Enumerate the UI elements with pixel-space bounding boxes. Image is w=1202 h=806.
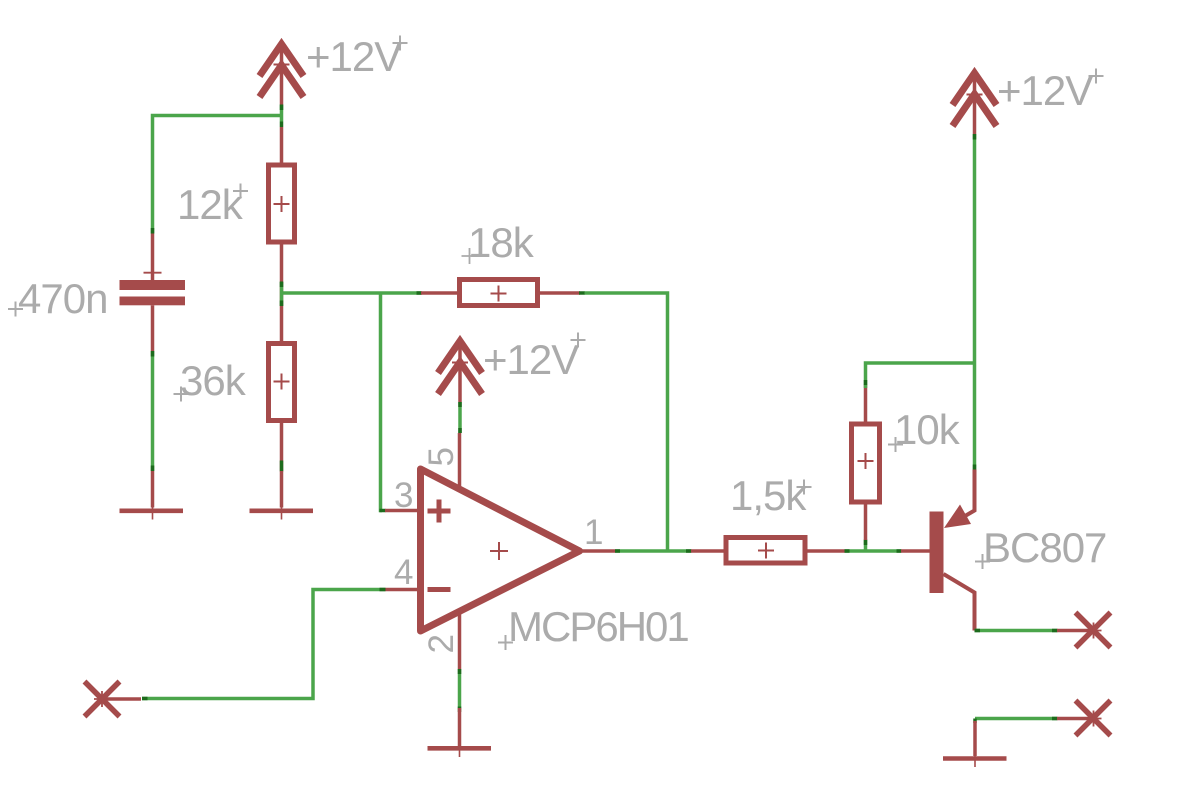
overlap pin3 <box>380 509 386 513</box>
open-end X3 <box>1057 701 1111 736</box>
wire R10k top to V+ rail <box>866 363 975 388</box>
svg-text:2: 2 <box>422 634 461 653</box>
resistor R3 18k <box>421 280 580 306</box>
overlap R18k right pin <box>579 291 585 295</box>
label +12V (P2) <box>483 333 586 384</box>
overlap pin5 <box>458 428 462 433</box>
wire collector to X2 <box>975 629 1058 633</box>
wire output node to R1,5k <box>616 549 691 553</box>
label MCP6H01 <box>498 603 688 650</box>
V+ rail wire down to emitter <box>973 134 977 470</box>
svg-text:+12V: +12V <box>483 336 579 383</box>
overlap C1 bottom <box>151 351 155 357</box>
label 1,5k <box>730 472 812 519</box>
wire P2 to pin5 <box>458 402 462 433</box>
junction overlap C1 top pin <box>151 228 155 234</box>
label BC807 <box>975 524 1106 571</box>
supply symbol P2 +12V (middle) <box>438 341 482 402</box>
wire node A to R18k (green) <box>282 291 422 295</box>
svg-text:BC807: BC807 <box>983 524 1106 571</box>
ground GND4 <box>943 721 1007 767</box>
ground GND2 <box>250 471 314 520</box>
overlap P3 pin <box>973 134 977 140</box>
svg-text:12k: 12k <box>177 181 244 228</box>
wire R18k to output node <box>584 293 668 551</box>
overlap pin1 <box>615 549 620 553</box>
supply symbol P3 +12V (top-right) <box>953 73 997 134</box>
label 36k <box>174 357 247 404</box>
overlap R1,5k left pin <box>686 549 692 553</box>
label 10k <box>888 406 961 453</box>
resistor R2 36k <box>269 344 295 472</box>
overlap pin4 <box>380 588 386 592</box>
op-amp U1 MCP6H01 <box>385 433 616 669</box>
svg-text:1,5k: 1,5k <box>730 472 807 519</box>
svg-text:470n: 470n <box>18 275 107 322</box>
overlap pin2 <box>458 669 462 674</box>
svg-text:5: 5 <box>422 447 461 466</box>
overlap R18k left pin <box>417 291 423 295</box>
wire R1,5k to base / R10k junction <box>845 549 901 553</box>
svg-text:+12V: +12V <box>997 67 1093 114</box>
overlap Q1 emitter pin <box>973 465 977 471</box>
svg-text:4: 4 <box>394 553 413 592</box>
open-end X2 (collector) <box>1057 613 1111 648</box>
svg-text:10k: 10k <box>894 406 961 453</box>
ground GND3 <box>428 708 492 757</box>
svg-text:3: 3 <box>394 476 413 515</box>
capacitor C1 470n <box>120 234 186 352</box>
overlap Q1 collector pin <box>975 629 981 633</box>
R10k branch wire <box>864 540 868 551</box>
transistor Q1 BC807 (PNP) <box>901 470 975 631</box>
wire X3 to GND4 <box>975 717 1057 721</box>
overlap Q1 base pin <box>897 549 902 553</box>
supply symbol P1 +12V (top-left) <box>260 44 304 105</box>
svg-text:MCP6H01: MCP6H01 <box>508 603 688 650</box>
overlap P2 pin <box>458 402 462 407</box>
overlap R10k bottom pin <box>864 540 868 546</box>
wire pin2 to GND3 <box>458 669 462 708</box>
label 12k <box>177 181 248 228</box>
overlap GND1 pin <box>151 466 155 472</box>
junction overlap P1 pin <box>280 105 284 111</box>
overlap R10k top pin <box>864 380 868 385</box>
svg-text:36k: 36k <box>180 357 247 404</box>
node A vertical wire stub <box>280 282 284 306</box>
node A junction overlap above (R12k lead) <box>280 282 284 288</box>
overlap X2 pin <box>1052 629 1058 633</box>
resistor R1 12k <box>269 127 295 344</box>
label 470n <box>8 275 107 322</box>
label 18k <box>462 219 535 266</box>
junction overlap R12k top pin <box>280 122 284 128</box>
resistor R5 10k <box>852 385 880 541</box>
wire C1 to GND1 <box>151 351 155 471</box>
svg-text:1: 1 <box>584 513 603 552</box>
wire X1 to pin4 <box>142 590 385 699</box>
label +12V (P1) <box>306 33 408 80</box>
feedback branch wire to pin3 <box>381 293 383 511</box>
wire P1 to node (green) <box>153 105 282 234</box>
open-end X1 (input) <box>85 682 142 717</box>
resistor R4 1,5k <box>691 538 845 564</box>
overlap X3 pin <box>1052 717 1058 721</box>
overlap GND4 pin <box>973 719 977 724</box>
svg-text:+12V: +12V <box>306 33 402 80</box>
ground GND1 <box>120 471 184 520</box>
label +12V (P3) <box>997 67 1104 114</box>
node A junction overlap below (R36k lead) <box>280 301 284 307</box>
overlap X1 pin <box>142 697 148 701</box>
overlap R36k bottom / GND2 <box>280 461 284 472</box>
svg-text:18k: 18k <box>468 219 535 266</box>
overlap R1,5k right pin <box>845 549 850 553</box>
overlap GND3 pin <box>458 707 462 713</box>
